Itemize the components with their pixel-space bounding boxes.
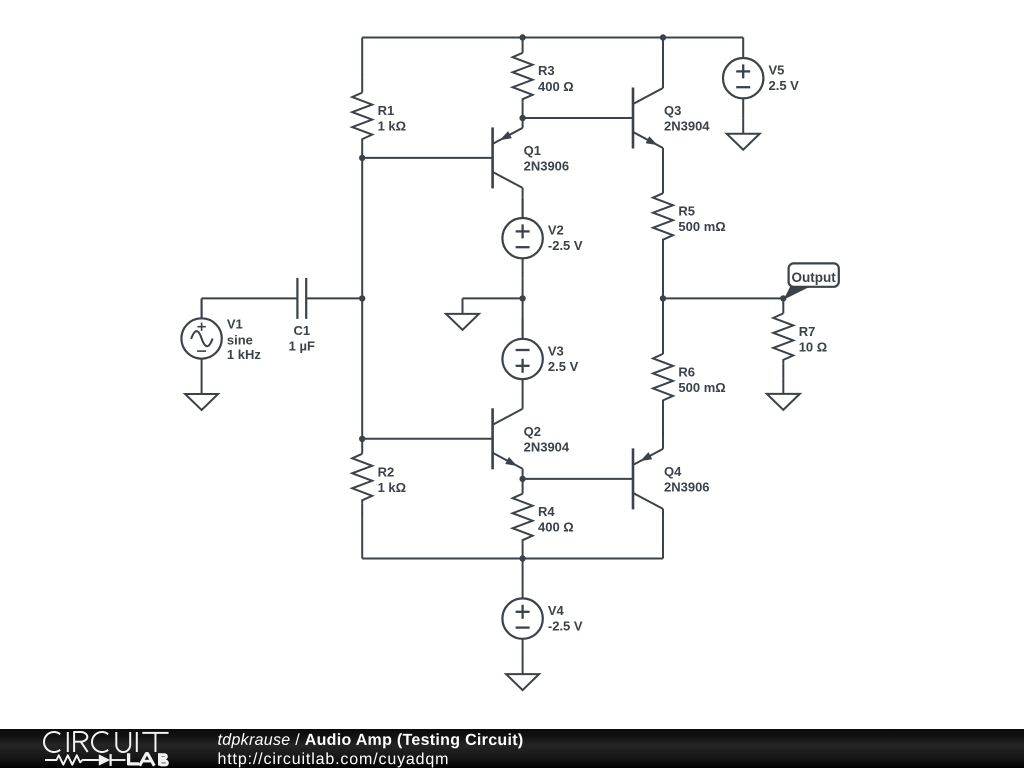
svg-text:V3: V3	[548, 344, 564, 359]
svg-text:tdpkrause / Audio Amp (Testing: tdpkrause / Audio Amp (Testing Circuit)	[217, 732, 523, 749]
wire R3 base Q3	[523, 117, 633, 119]
svg-text:2N3904: 2N3904	[664, 119, 710, 134]
svg-text:2N3904: 2N3904	[524, 439, 570, 454]
junction R5 R6 node	[660, 295, 666, 301]
svg-text:V2: V2	[548, 223, 564, 238]
junction C1 node	[359, 295, 365, 301]
ground V1	[185, 379, 218, 411]
ground V4	[506, 659, 539, 691]
label C1 value	[289, 323, 315, 354]
wire mid node to V3	[522, 298, 524, 339]
svg-text:sine: sine	[227, 332, 253, 347]
svg-text:-2.5 V: -2.5 V	[548, 619, 583, 634]
junction R3 bottom	[519, 115, 525, 121]
wire left rail middle	[361, 158, 363, 439]
svg-text:1 µF: 1 µF	[289, 339, 315, 354]
resistor R5	[653, 178, 673, 258]
wire R6 to Q4 emitter	[662, 404, 664, 439]
wire Q1 collector to V2	[522, 198, 524, 218]
svg-text:2N3906: 2N3906	[524, 158, 570, 173]
svg-text:R7: R7	[799, 324, 816, 339]
transistor Q1 2N3906	[493, 118, 523, 198]
resistor R2	[352, 439, 372, 519]
voltage source V2	[502, 198, 542, 278]
svg-text:R4: R4	[538, 504, 555, 519]
svg-text:R6: R6	[678, 364, 695, 379]
wire R2 base Q2	[362, 438, 492, 440]
wire Q3 collector riser	[662, 38, 664, 79]
label V3 value	[548, 344, 579, 375]
svg-text:Q2: Q2	[524, 424, 541, 439]
svg-text:10 Ω: 10 Ω	[799, 339, 828, 354]
svg-text:400 Ω: 400 Ω	[538, 520, 574, 535]
junction R1 bottom	[359, 155, 365, 161]
svg-text:V5: V5	[769, 63, 785, 78]
wire output node to R6	[662, 298, 664, 354]
svg-text:R1: R1	[378, 103, 395, 118]
resistor R6	[653, 339, 673, 419]
wire left rail upper	[361, 38, 363, 78]
wire C1 to rail	[306, 297, 362, 299]
voltage source V5	[723, 38, 763, 118]
label R4 value	[538, 504, 574, 535]
svg-text:1 kΩ: 1 kΩ	[378, 480, 407, 495]
label V5 value	[769, 63, 800, 94]
label R6 value	[678, 364, 725, 395]
svg-text:2.5 V: 2.5 V	[769, 78, 800, 93]
svg-text:Q1: Q1	[524, 143, 541, 158]
junction output node	[780, 295, 786, 301]
transistor Q4 2N3906	[633, 439, 663, 519]
label R5 value	[678, 204, 725, 235]
svg-text:Q3: Q3	[664, 103, 681, 118]
junction Q2 emitter	[519, 476, 525, 482]
label Q1 model	[524, 143, 570, 174]
svg-text:2N3906: 2N3906	[664, 479, 710, 494]
wire R5 to output node	[662, 243, 664, 298]
resistor R3	[513, 38, 533, 118]
resistor R7	[773, 298, 793, 378]
voltage source V3	[502, 319, 542, 399]
label V1 value	[227, 317, 261, 362]
voltage source V4	[502, 579, 542, 659]
logo CIRCUIT	[44, 732, 169, 752]
ground V5	[727, 118, 760, 150]
transistor Q2 2N3904	[493, 399, 523, 479]
transistor Q3 2N3904	[633, 78, 663, 158]
wire left rail lower	[361, 519, 363, 559]
svg-text:Output: Output	[791, 270, 836, 285]
wire Q4 collector drop	[662, 519, 664, 559]
node Output flag	[784, 263, 839, 299]
junction R2 top	[359, 436, 365, 442]
wire top rail	[362, 37, 743, 39]
svg-text:R3: R3	[538, 63, 555, 78]
svg-text:-2.5 V: -2.5 V	[548, 238, 583, 253]
label Q3 model	[664, 103, 710, 134]
label R1 value	[378, 103, 407, 134]
logo resistor-diode row	[45, 753, 167, 766]
label Q4 model	[664, 464, 710, 495]
svg-text:C1: C1	[293, 323, 310, 338]
svg-text:1 kΩ: 1 kΩ	[378, 119, 407, 134]
svg-text:400 Ω: 400 Ω	[538, 79, 574, 94]
wire mid node to ground	[463, 297, 523, 299]
label V4 value	[548, 603, 583, 634]
label R3 value	[538, 63, 574, 94]
svg-text:V4: V4	[548, 603, 565, 618]
ground R7	[767, 378, 800, 410]
wire Q2 emitter to Q4 base	[523, 478, 633, 480]
ground mid	[446, 298, 479, 330]
svg-text:500 mΩ: 500 mΩ	[678, 219, 725, 234]
wire R1 base Q1	[362, 157, 492, 159]
capacitor C1	[297, 278, 306, 319]
label V2 value	[548, 223, 583, 254]
svg-text:Q4: Q4	[664, 464, 682, 479]
resistor R1	[352, 78, 372, 158]
junction V2 V3 node	[519, 295, 525, 301]
wire V2 to mid node	[522, 278, 524, 298]
wire V1 to C1	[202, 297, 298, 299]
resistor R4	[513, 479, 533, 559]
wire V5 drop	[742, 38, 744, 39]
wire V3 to Q2 collector	[522, 398, 524, 400]
footer bar	[0, 729, 1024, 768]
junction Q3 collector	[660, 34, 666, 40]
junction bottom node	[519, 555, 525, 561]
svg-text:http://circuitlab.com/cuyadqm: http://circuitlab.com/cuyadqm	[217, 751, 449, 768]
svg-text:2.5 V: 2.5 V	[548, 359, 579, 374]
svg-text:R2: R2	[378, 464, 395, 479]
label R2 value	[378, 464, 407, 495]
wire output	[663, 297, 783, 299]
wire bottom node to V4	[522, 559, 524, 579]
wire Q3 emitter to R5	[662, 158, 664, 193]
junction R3 top	[519, 34, 525, 40]
label R7 value	[799, 324, 828, 355]
voltage source V1	[181, 299, 221, 379]
wire bottom rail	[362, 558, 663, 560]
svg-text:V1: V1	[227, 317, 243, 332]
svg-text:1 kHz: 1 kHz	[227, 347, 261, 362]
svg-text:500 mΩ: 500 mΩ	[678, 380, 725, 395]
label Q2 model	[524, 424, 570, 455]
svg-text:R5: R5	[678, 204, 695, 219]
